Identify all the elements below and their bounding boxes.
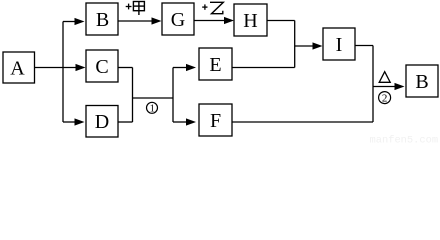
wire I output (355, 45, 373, 47)
svg-text:A: A (10, 57, 25, 79)
arrow G to H (194, 17, 234, 24)
svg-text:D: D (95, 111, 109, 133)
wire junction left vertical (C and D join) (132, 68, 134, 123)
wire E output (232, 67, 295, 69)
svg-text:C: C (95, 56, 108, 78)
wire junction bridge (133, 97, 174, 99)
watermark manfen5.com (370, 135, 439, 147)
box B (top) (86, 3, 118, 35)
box C (86, 50, 118, 82)
wire H output (267, 20, 295, 22)
wire junction right vertical (to E and F) (172, 68, 174, 123)
svg-text:E: E (209, 54, 221, 76)
label 甲 glyph (133, 2, 144, 16)
svg-text:B: B (415, 71, 428, 93)
label +甲 (plus) (126, 4, 132, 10)
wire right vertical (I and F join) (372, 46, 374, 123)
svg-text:manfen5.com: manfen5.com (370, 135, 439, 144)
arrow junction to E (173, 64, 196, 71)
wire C output (118, 67, 133, 69)
box F (199, 104, 232, 136)
box H (234, 4, 267, 36)
wire A output with arrow into C (35, 64, 86, 71)
box B (right) (406, 65, 438, 97)
wire branch vertical (from A line up to B row, down to D row) (62, 22, 64, 123)
arrow merge to I (295, 42, 323, 49)
box I (323, 28, 355, 60)
svg-text:G: G (171, 9, 185, 31)
arrow to B (right), reaction 2 (373, 83, 405, 90)
box D (86, 106, 118, 138)
label 乙 glyph (210, 2, 223, 13)
arrow branch to B (63, 18, 85, 25)
box A (3, 52, 35, 83)
svg-text:F: F (210, 110, 221, 132)
label circled 1 (147, 102, 158, 114)
label +乙 (plus) (202, 4, 207, 9)
arrow B to G (118, 17, 162, 24)
box E (199, 48, 232, 80)
wire D output (118, 121, 133, 123)
wire merge vertical (H and E join) (294, 21, 296, 68)
label triangle (heat) (379, 72, 390, 83)
svg-text:2: 2 (382, 93, 388, 105)
svg-text:I: I (336, 34, 343, 56)
label circled 2 (379, 92, 391, 105)
wire F output (232, 121, 373, 123)
box G (162, 3, 194, 35)
arrow branch to D (63, 118, 85, 125)
svg-text:H: H (243, 10, 257, 32)
arrow junction to F (173, 118, 196, 125)
svg-text:B: B (96, 9, 109, 31)
svg-text:1: 1 (150, 104, 155, 115)
